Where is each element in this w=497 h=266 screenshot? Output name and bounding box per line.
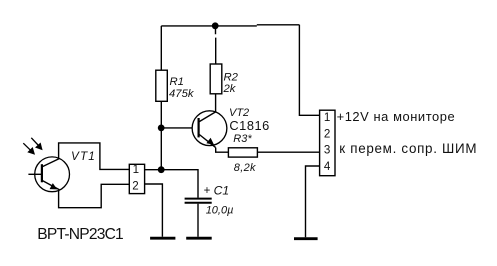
svg-text:8,2k: 8,2k [234,162,256,174]
transistor VT1 symbol [28,157,69,192]
wire C1 to ground [197,204,199,237]
svg-text:R1: R1 [170,76,184,88]
ground under pin 2 [150,237,175,240]
wire VT2 collector [215,94,217,112]
ground under C1 [186,237,212,240]
wire right drop to pin 1 [299,25,319,116]
wire pin 4 to ground [306,166,320,237]
resistor R1 [156,70,168,101]
junction dot C1 node [158,166,165,173]
wire R1 to base node [160,101,162,169]
wire R2 top branch [215,28,217,65]
light arrow 1 [23,143,35,155]
svg-text:10,0µ: 10,0µ [206,204,234,216]
svg-text:4: 4 [324,160,331,173]
wire pin 1 to C1 [145,170,198,198]
wire pin 2 to ground [145,184,163,237]
svg-text:1: 1 [324,111,330,124]
wire base of VT2 [161,127,197,129]
svg-text:2: 2 [132,180,138,193]
resistor R3 [228,148,257,157]
ground under pin 4 [294,237,318,240]
svg-text:BPT-NP23C1: BPT-NP23C1 [37,226,123,243]
capacitor C1 [185,199,212,203]
svg-text:C1816: C1816 [229,118,269,133]
connector X2 4-pin [320,110,335,176]
svg-text:475k: 475k [169,88,195,100]
light arrow 2 [31,138,42,151]
transistor VT2 [192,111,227,148]
svg-text:+12V на мониторе: +12V на мониторе [337,109,456,124]
svg-text:VT1: VT1 [71,149,96,163]
wire emitter to R3 [216,148,229,153]
svg-text:R2: R2 [224,72,239,84]
wire R1 top branch [160,26,162,70]
svg-text:3: 3 [324,144,330,157]
resistor R2 [210,64,222,94]
phototransistor VT1 package [59,143,130,208]
wire top rail [161,25,299,26]
svg-text:2: 2 [324,127,330,140]
junction dot top node [212,22,219,29]
junction dot base node [158,125,165,132]
svg-text:2k: 2k [223,83,237,95]
svg-text:R3*: R3* [233,133,252,145]
svg-text:1: 1 [133,163,139,176]
svg-text:к перем. сопр. ШИМ: к перем. сопр. ШИМ [339,141,477,156]
connector X1 2-pin [129,164,144,193]
svg-text:C1: C1 [214,183,230,197]
svg-text:+: + [204,185,211,197]
wire R3 to pin 3 [257,151,319,153]
